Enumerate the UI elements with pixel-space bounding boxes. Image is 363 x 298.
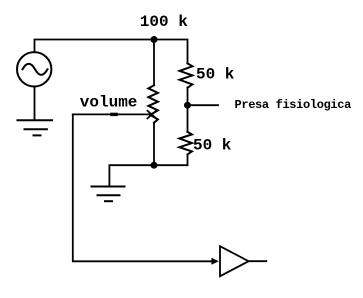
wire: source bottom to ground — [34, 87, 36, 120]
resistor R1 50k — [180, 63, 193, 87]
node presa (junction dot) — [184, 102, 191, 109]
wiper arrowhead X — [147, 111, 156, 119]
svg-text:50 k: 50 k — [193, 137, 232, 155]
wire: source top to node A to R1 top — [35, 40, 188, 64]
wire: R1 bottom to R2 top — [187, 88, 189, 132]
svg-text:Presa fisiologica: Presa fisiologica — [235, 98, 352, 112]
wire: R2 bottom, bottom rail to ground stem — [109, 154, 187, 185]
ground 2 (below divider) — [92, 187, 125, 202]
wire overlap tick on wiper — [112, 113, 116, 116]
svg-text:50 k: 50 k — [196, 66, 235, 84]
op-amp U1 (buffer triangle) — [220, 246, 249, 276]
wire: wiper to amplifier input — [73, 114, 212, 261]
potentiometer (volume) zigzag — [148, 85, 158, 122]
wire: tap — [188, 104, 219, 106]
arrowhead (amp input) — [211, 258, 218, 265]
ground (below source) — [18, 120, 53, 135]
AC source V1 — [17, 52, 51, 86]
node A (junction dot, top) — [151, 36, 158, 43]
svg-text:100 k: 100 k — [140, 13, 188, 31]
resistor R2 50k — [179, 132, 192, 155]
wire: node A down to potentiometer — [153, 40, 155, 86]
wiper wire — [73, 113, 151, 115]
wire: amp output — [249, 260, 267, 262]
wire: pot bottom — [153, 123, 155, 166]
node B (junction dot, pot bottom) — [151, 162, 158, 169]
svg-text:volume: volume — [80, 94, 138, 112]
